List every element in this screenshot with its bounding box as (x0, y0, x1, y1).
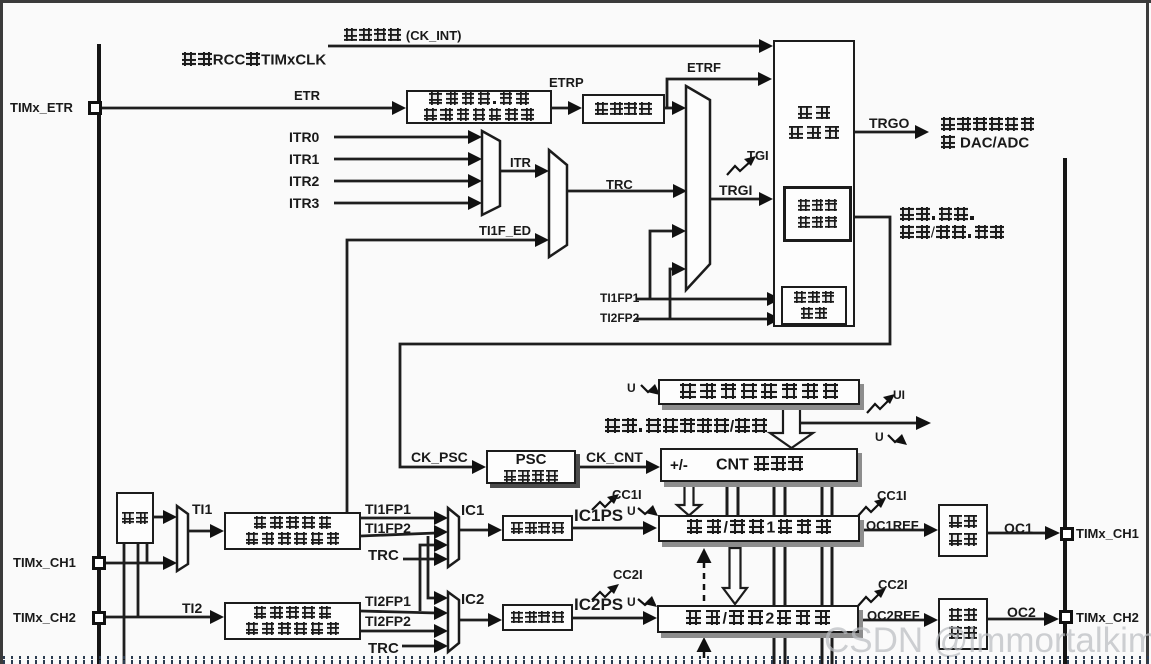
arrow ITR0 into mux (468, 130, 482, 144)
flag U into ARR squiggle (641, 385, 653, 392)
wire ITR1 (334, 158, 471, 161)
label reset enable (899, 207, 976, 222)
wire IC1 to prescaler (459, 529, 490, 532)
box input filter ETRF (582, 94, 665, 124)
flag CC2I right squiggle (858, 593, 880, 606)
arrow TRC into IC2 mux (434, 639, 448, 653)
wire TI1FP1 branch up into big mux (650, 231, 674, 299)
box input filter edge detector 2 (224, 602, 361, 640)
wire OC2 (988, 618, 1045, 621)
pin TIMx_CH2 left (92, 611, 106, 625)
pin TIMx_CH1 right (1060, 527, 1074, 541)
label TI2FP2 row2 (365, 614, 411, 628)
bus left vertical (97, 44, 101, 664)
bus pair B top (773, 482, 776, 515)
arrow TI2 into filter2 (210, 610, 224, 624)
wire OC2REF (858, 619, 926, 622)
wire TI2FP1 routed up to IC1 mux (420, 545, 436, 611)
perforation dots bottom (0, 656, 1151, 659)
frame top border (0, 0, 1151, 3)
wire CK_CNT (576, 466, 648, 469)
wire TI1FP1 to encoder and big mux (636, 298, 768, 301)
bus pair C bottom (821, 633, 824, 664)
wire TI1F_ED (347, 240, 537, 512)
mux TI1 selector (177, 506, 188, 571)
wire TI2FP2 out of filter2 (361, 630, 436, 633)
arrow CK_PSC into PSC (472, 460, 486, 474)
arrow hollow capture1 to capture2 (723, 548, 747, 604)
mux TRGI big selector (686, 86, 710, 290)
frame right border (1146, 0, 1149, 664)
label TIMx_CH2 right (1076, 611, 1139, 624)
label ITR2 (289, 174, 319, 188)
label TI2FP1 row2 (365, 594, 411, 608)
box CNT counter (660, 448, 858, 482)
label OC2REF (867, 609, 920, 622)
label ETR (294, 89, 320, 102)
wire ITR mux output (500, 170, 537, 173)
label TIMx_CH1 right (1076, 527, 1139, 540)
label U update right (875, 431, 884, 443)
flag CC2I left squiggle (592, 589, 613, 600)
arrow TI2FP2 into big mux (672, 262, 686, 276)
box slave mode controller (783, 186, 852, 242)
wire ITR2 (334, 180, 471, 183)
bus pair C middle (821, 542, 824, 606)
wire slave mode controller to prescaler clock path (400, 217, 890, 467)
arrow CK_CNT into CNT (646, 460, 660, 474)
label ITR (510, 156, 531, 169)
arrow hollow ARR to CNT (677, 405, 813, 604)
arrow TI1FP1 into IC1 mux (434, 511, 448, 525)
label IC1PS (574, 507, 623, 524)
label TIMx_CH1 left (13, 556, 76, 569)
arrow OC2REF into output control2 (924, 613, 938, 627)
arrow CH1 into TI1 mux (163, 556, 177, 570)
bus right vertical (1063, 158, 1067, 664)
label TRC row1 (368, 548, 399, 563)
wire XOR output to TI1 mux (154, 516, 165, 519)
mux IC2 selector (448, 592, 459, 652)
label CC1I right (877, 489, 907, 502)
flag U into capture2 squiggle (638, 599, 650, 605)
mux ITR selector (482, 131, 500, 215)
label CK_CNT (586, 450, 643, 464)
arrow CK_INT into trigger controller (759, 39, 773, 53)
arrow TI2FP1 into IC2 mux (434, 606, 448, 620)
arrow IC2 into prescaler2 (488, 613, 502, 627)
arrow dashed capture2 to capture1 (697, 548, 712, 663)
box input filter edge detector 1 (224, 512, 361, 550)
arrow TI1F_ED into mux2 (535, 233, 549, 247)
arrow ETRF into trigger controller (758, 72, 772, 86)
label ETRP (549, 76, 584, 89)
arrow IC1PS into capture1 (643, 521, 657, 535)
arrow OC1REF into output control1 (924, 523, 938, 537)
box trigger controller (773, 40, 855, 327)
wire ETR from pin to polarity box (102, 107, 393, 110)
arrow TI2FP1 into IC1 mux (434, 538, 448, 552)
arrow TI2FP2 into encoder (767, 312, 781, 326)
wire ETRF filter output to mux (665, 107, 674, 110)
label OC2 (1007, 605, 1036, 619)
bus pair B bottom (773, 633, 776, 664)
label to DAC ADC (940, 135, 1029, 150)
flag U into capture1 squiggle (638, 508, 650, 514)
box prescaler IC2 (502, 604, 573, 631)
arrow IC1 into prescaler1 (488, 523, 502, 537)
label TI2FP2 mid (600, 312, 639, 324)
pin TIMx_CH1 left (92, 556, 106, 570)
wire ITR0 (334, 136, 471, 139)
flag CC1I left squiggle (592, 499, 613, 510)
label TIMx_ETR (10, 101, 73, 114)
mux TRC selector (549, 150, 567, 257)
pin TIMx_CH2 right (1059, 610, 1073, 624)
box capture compare 1 register (658, 515, 860, 542)
arrow dashed from below into capture2 (703, 652, 706, 663)
wire IC2PS (573, 617, 645, 620)
arrow ITR2 into mux (468, 174, 482, 188)
wire XOR stub to CH3 off bottom (123, 543, 126, 664)
arrow hollow CNT to capture1 (677, 482, 701, 516)
box output control 2 (938, 598, 988, 650)
arrow XOR out into TI1 mux (163, 510, 177, 524)
label CC2I left (613, 568, 643, 581)
arrow TRC into IC1 mux (434, 552, 448, 566)
label TI1FP2 row1 (365, 521, 411, 535)
label TI1FP1 mid (600, 292, 639, 304)
label TRC row2 (368, 641, 399, 656)
label TIMx_CH2 left (13, 611, 76, 624)
bus CNT compare lines pair A (727, 482, 832, 664)
box capture compare 2 register (657, 605, 859, 633)
wire ETRF branch up to trigger controller (667, 79, 760, 108)
wire TIMx_CH2 input TI2 (106, 616, 212, 619)
label to other timers (940, 117, 1035, 132)
wire CK_INT internal clock line (328, 45, 762, 48)
label ITR0 (289, 130, 319, 144)
box XOR (116, 492, 154, 544)
pin TIMx_ETR (88, 101, 102, 115)
wire TI2FP2 to encoder (636, 318, 768, 321)
wire XOR stub to CH1 wire (146, 543, 149, 563)
flag CC1I right squiggle (858, 503, 880, 516)
flag UI squiggle (867, 399, 890, 413)
mux IC1 selector (448, 508, 459, 567)
arrow TRGI into trigger controller (759, 192, 773, 206)
label CC2I right (878, 578, 908, 591)
wire TI2FP2 branch up into big mux (670, 269, 674, 319)
wire IC1PS (573, 527, 645, 530)
wire TRGO (855, 131, 915, 134)
box prescaler IC1 (502, 515, 573, 541)
label ITR1 (289, 152, 319, 166)
label OC1 (1004, 521, 1033, 535)
wire OC1 (988, 532, 1046, 535)
watermark CSDN (824, 621, 1151, 661)
arrow ITR1 into mux (468, 152, 482, 166)
arrow TI1FP1 into big mux (672, 224, 686, 238)
label OC1REF (866, 519, 919, 532)
box encoder interface (781, 286, 847, 325)
arrow TRGO (915, 125, 929, 139)
arrow TI1FP2 into IC1 mux (434, 525, 448, 539)
wire update event arrow right (801, 422, 918, 425)
label U capture2 (627, 596, 636, 608)
arrow update event right (916, 416, 931, 430)
label TI1FP1 row1 (365, 502, 411, 516)
bus pair B middle (773, 542, 776, 606)
label IC1 (461, 503, 484, 518)
wire ITR3 (334, 202, 471, 205)
wire ETRP polarity box to input filter (552, 107, 570, 110)
wire TRC from mux2 to big mux (567, 190, 675, 193)
node arrowheads (163, 39, 1060, 653)
label IC2PS (574, 596, 623, 613)
wire TIMx_CH1 input (106, 562, 165, 565)
wire TRC row2 (402, 645, 436, 648)
label TI2 (182, 601, 202, 615)
box PSC prescaler (486, 450, 576, 484)
box polarity selection / edge detector / prescaler (406, 90, 552, 124)
wire TI1FP2 out of filter1 (361, 533, 436, 536)
flag TGI squiggle (592, 156, 907, 607)
label TRGO (869, 116, 909, 130)
wire TI2FP1 out of filter2 (361, 611, 436, 613)
arrow ETR into polarity box (392, 101, 406, 115)
arrow TI1FP1 into encoder (767, 292, 781, 306)
wire TRC row1 (403, 558, 436, 561)
label up down count (899, 225, 1005, 240)
wire XOR stub to CH2 wire (137, 543, 140, 617)
label TI1 (192, 502, 212, 516)
box auto reload register (658, 379, 860, 405)
label IC2 (461, 592, 484, 607)
arrow ITR3 into mux (468, 196, 482, 210)
label U left of ARR (627, 382, 636, 394)
label ETRF (687, 61, 721, 74)
label TGI (747, 149, 769, 162)
bus pair C top (821, 482, 824, 515)
arrow IC2PS into capture2 (643, 611, 657, 625)
wire IC2 to prescaler (459, 619, 490, 622)
label internal clock CK_INT (343, 28, 461, 42)
label stop clear updown (604, 418, 768, 435)
flag U update right squiggle (888, 435, 900, 442)
arrow ETRF into big mux (672, 101, 686, 115)
arrow TRC into big mux (673, 184, 687, 198)
label CC1I left (612, 488, 642, 501)
wire TI1FP2 routed down to IC2 mux (428, 536, 436, 598)
label from RCC TIMxCLK (181, 52, 326, 67)
wire TI1 mux output (188, 530, 212, 533)
box output control 1 (938, 504, 988, 557)
frame left border (0, 0, 3, 664)
arrow ETRP into input filter (568, 101, 582, 115)
wire TRGI big mux to trigger controller (710, 198, 760, 201)
wire TI1FP1 out of filter1 (361, 517, 436, 520)
label U capture1 (627, 505, 636, 517)
arrow TI1FP2 into IC2 mux (434, 591, 448, 605)
label TRGI (719, 183, 752, 197)
label TI1F_ED (479, 224, 531, 237)
label CK_PSC (411, 450, 468, 464)
label UI (893, 389, 905, 401)
wire OC1REF (860, 529, 926, 532)
label ITR3 (289, 196, 319, 210)
label TRC top (606, 178, 633, 191)
arrow OC2 into pin CH2 (1044, 612, 1059, 626)
arrow OC1 into pin CH1 (1045, 526, 1060, 540)
arrow TI1 into filter1 (210, 524, 224, 538)
arrow TI2FP2 into IC2 mux (434, 624, 448, 638)
arrow ITR into mux2 (535, 164, 549, 178)
